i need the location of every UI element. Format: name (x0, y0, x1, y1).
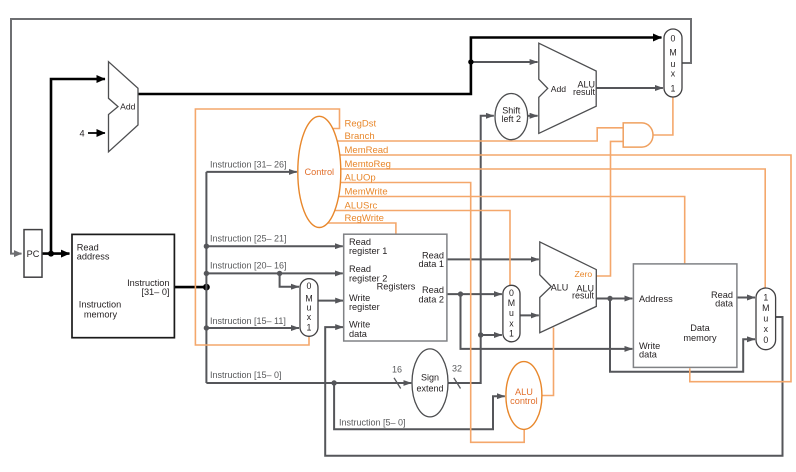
wire PC+4 to branch adder (471, 61, 538, 63)
adder Add (PC+4) (109, 62, 139, 152)
svg-text:Branch: Branch (345, 131, 375, 142)
svg-text:1: 1 (307, 322, 312, 332)
node instruction junction (203, 284, 210, 291)
wire PC feedback (mux output to PC) (11, 19, 691, 254)
node PC output junction (48, 251, 54, 257)
svg-text:Instruction [25– 21]: Instruction [25– 21] (210, 234, 287, 244)
svg-text:Sign: Sign (421, 373, 439, 383)
svg-text:x: x (307, 312, 312, 322)
svg-text:32: 32 (452, 364, 462, 374)
svg-text:register: register (349, 302, 380, 312)
data memory box (633, 264, 737, 368)
svg-text:Registers: Registers (377, 281, 416, 291)
svg-text:Instruction [20– 16]: Instruction [20– 16] (210, 261, 287, 271)
wire AND output to mux select (654, 97, 673, 135)
wire Instruction [25-21] (206, 245, 342, 247)
wire Data memory Read data to final mux 1 (737, 297, 755, 299)
svg-text:x: x (671, 68, 676, 78)
wire riser to ALU mux input 1 (481, 334, 502, 336)
svg-text:memory: memory (84, 310, 118, 320)
svg-text:M: M (669, 48, 676, 58)
svg-text:ALU: ALU (551, 283, 569, 293)
svg-text:Add: Add (120, 101, 136, 111)
svg-text:PC: PC (27, 249, 40, 259)
wire sign-extend output riser to shift left 2 (448, 116, 494, 383)
wire Add output to Mux0 (thick) (137, 38, 662, 95)
svg-text:Address: Address (639, 294, 673, 304)
sign extend (412, 349, 448, 417)
final mux (756, 288, 776, 350)
svg-text:register 1: register 1 (349, 246, 387, 256)
svg-text:ALUSrc: ALUSrc (345, 201, 378, 212)
svg-text:M: M (762, 303, 769, 313)
svg-text:data: data (715, 298, 734, 308)
wire 20-16 drop to mux (280, 273, 299, 286)
wire PC+4 riser to Add (51, 79, 105, 255)
svg-text:Control: Control (304, 167, 334, 177)
wire Branch (337, 128, 623, 141)
svg-text:result: result (573, 87, 596, 97)
svg-text:0: 0 (763, 335, 768, 345)
svg-text:0: 0 (307, 281, 312, 291)
wire Read data 2 to Data memory Write data (461, 294, 633, 349)
wire Read data 2 to ALU mux (447, 293, 502, 295)
wire Instruction [31-26] to Control (206, 171, 296, 173)
svg-text:data 2: data 2 (418, 294, 444, 304)
write-register mux (300, 279, 318, 337)
wire Zero to AND gate (596, 141, 623, 276)
svg-text:data 1: data 1 (418, 259, 444, 269)
svg-text:RegDst: RegDst (345, 119, 377, 130)
svg-text:memory: memory (683, 333, 717, 343)
top mux (664, 29, 682, 97)
wire RegDst (195, 109, 339, 345)
wire Instruction [15-0] to sign extend (206, 382, 411, 384)
wire Instruction [5-0] to ALU control (334, 383, 505, 429)
wire 4 into Add (88, 132, 105, 134)
ALU mux (503, 285, 520, 342)
wire RegWrite (328, 223, 396, 235)
wire MemRead (340, 155, 791, 382)
svg-text:extend: extend (416, 384, 443, 394)
wire Instruction [20-16] (206, 272, 342, 274)
svg-text:left 2: left 2 (502, 114, 522, 124)
svg-text:4: 4 (79, 129, 84, 139)
svg-text:MemWrite: MemWrite (345, 187, 388, 198)
svg-text:1: 1 (509, 329, 514, 339)
wire ALUSrc (335, 211, 510, 286)
svg-text:0: 0 (509, 288, 514, 298)
main ALU (540, 242, 597, 333)
AND gate (623, 123, 653, 147)
wire instruction bus vertical (205, 172, 207, 383)
wire ALU result to Data memory Address (596, 298, 632, 300)
wire ALU control output to ALU (542, 328, 554, 396)
registers box (344, 234, 447, 341)
svg-text:Zero: Zero (574, 269, 592, 279)
svg-text:x: x (509, 318, 514, 328)
wire final mux output return to Registers Write data (325, 317, 782, 456)
svg-text:Data: Data (690, 323, 710, 333)
wire Instruction [15-11] (206, 327, 299, 329)
control unit (298, 116, 341, 227)
wire Instruction [31-0] bus stub (175, 286, 206, 289)
wire ALUOp (340, 183, 524, 443)
wire shift left 2 output to branch adder (528, 115, 538, 117)
svg-text:ALUOp: ALUOp (345, 173, 376, 184)
branch adder (539, 43, 596, 133)
wire ALU mux output to ALU (520, 314, 539, 316)
svg-text:control: control (510, 396, 538, 406)
svg-text:1: 1 (763, 292, 768, 302)
wire Read data 1 to ALU (447, 258, 539, 260)
wire MemWrite (339, 197, 685, 265)
svg-text:result: result (572, 291, 595, 301)
PC box (24, 230, 42, 278)
svg-text:Instruction [15– 0]: Instruction [15– 0] (210, 370, 282, 380)
svg-text:Add: Add (551, 84, 567, 94)
instruction memory box (72, 234, 174, 337)
svg-text:Instruction [31– 26]: Instruction [31– 26] (210, 160, 287, 170)
svg-text:x: x (764, 324, 769, 334)
wire branch adder output to mux 1 (596, 87, 663, 89)
svg-text:data: data (349, 329, 368, 339)
svg-text:M: M (508, 298, 515, 308)
svg-text:Instruction [15– 11]: Instruction [15– 11] (210, 316, 286, 326)
svg-text:RegWrite: RegWrite (345, 213, 384, 224)
svg-text:1: 1 (671, 83, 676, 93)
svg-text:Instruction: Instruction (79, 300, 121, 310)
wire write-register mux output (318, 300, 343, 302)
svg-text:MemRead: MemRead (345, 145, 389, 156)
svg-text:0: 0 (671, 34, 676, 44)
svg-text:[31– 0]: [31– 0] (141, 287, 169, 297)
svg-text:16: 16 (392, 365, 402, 375)
svg-text:Instruction [5– 0]: Instruction [5– 0] (339, 418, 406, 428)
svg-text:MemtoReg: MemtoReg (345, 159, 391, 170)
wire MemtoReg (341, 169, 765, 289)
ALU control (506, 362, 542, 430)
wire PC to Read address (thick) (42, 252, 70, 255)
svg-text:u: u (509, 308, 514, 318)
svg-text:u: u (763, 314, 768, 324)
shift left 2 (495, 94, 528, 140)
svg-text:address: address (77, 252, 110, 262)
wire ALU result bypass to final mux 0 (610, 299, 755, 372)
svg-text:data: data (639, 350, 658, 360)
